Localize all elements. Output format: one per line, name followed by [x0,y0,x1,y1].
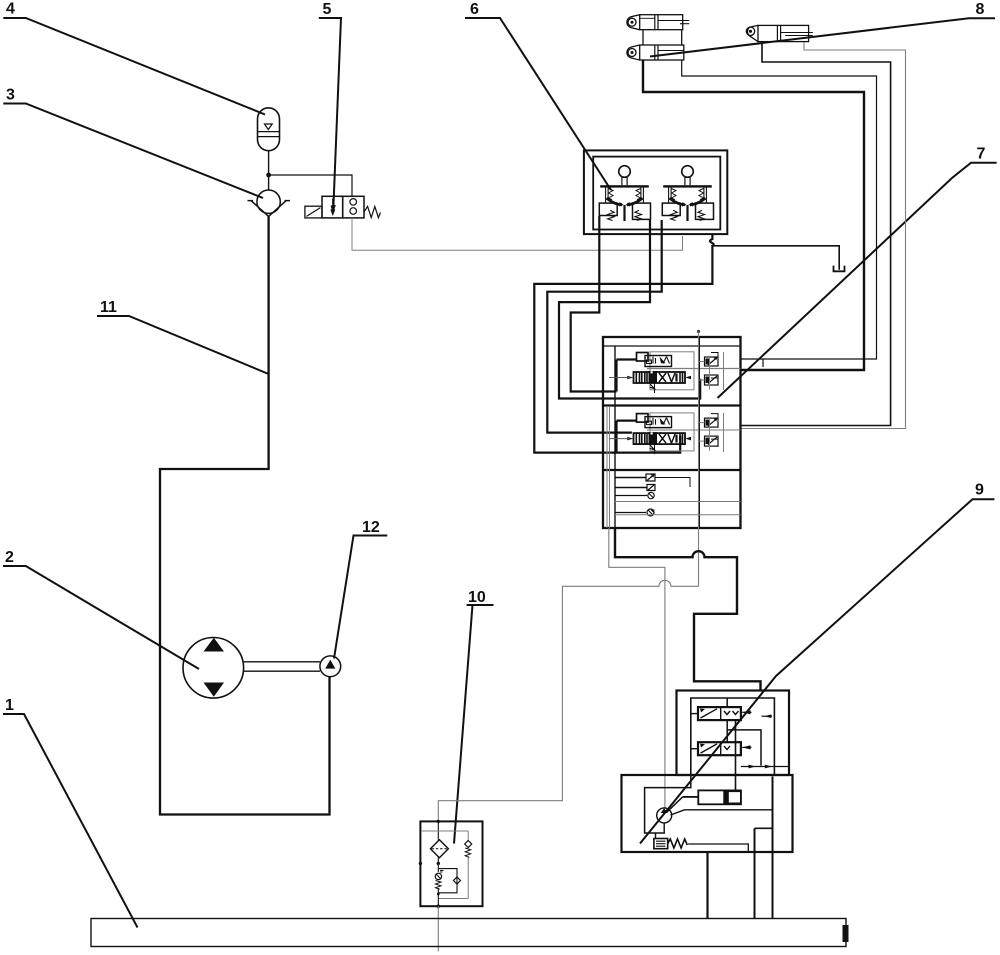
svg-text:9: 9 [975,482,984,499]
svg-text:1: 1 [5,697,14,714]
svg-text:11: 11 [100,299,117,316]
block 7 divider row1/row2 [603,404,741,406]
filter relief valve [435,869,460,893]
wire accumulator to junction [268,150,270,190]
block 9 internal wires upper [727,698,788,790]
filter drain wire [437,906,439,951]
row3 grey lines [615,502,741,515]
filter inner wires [419,820,469,908]
directional valve row 1 [609,352,718,393]
row3 orifice d [615,509,655,516]
block 9 relief valve [654,823,748,852]
tank symbol [834,266,845,272]
pilot unit left [599,166,650,221]
tank rail 1 [91,919,849,947]
valve block 7 outline [603,337,741,528]
svg-text:12: 12 [362,519,380,536]
block 9 valve B [691,742,752,755]
block 7 main internal divider [698,337,700,528]
node stub above gallery [697,330,700,337]
label 7 [718,146,997,399]
wire cylinder w2 [682,60,877,367]
tank return Z-route block7 to block9 [615,528,761,691]
block 7 inner left gallery [614,346,616,528]
row3 check symbol b [615,485,655,491]
svg-text:10: 10 [468,589,486,606]
svg-text:3: 3 [6,87,15,104]
filter element diamond [430,840,448,858]
filter 10 box [420,821,482,906]
main supply wire 11 pump to check valve [160,217,330,815]
pump 2 [183,638,244,699]
block 9 left leg [706,852,708,919]
directional valve row 2 [609,413,718,454]
wire cylinder w4 [741,42,906,429]
block 9 slave cylinder [667,790,741,812]
label 11 [97,299,269,374]
block 9 lower inner lines [645,775,691,833]
block 7 grey gallery lines [607,352,741,528]
block 7 divider row2/row3 [603,469,741,471]
label 3 [3,87,263,199]
svg-text:6: 6 [470,1,479,18]
label 2 [3,549,199,669]
block 9 upper box [677,691,790,776]
check valve 3 [248,190,291,216]
label 8 [650,1,995,57]
pilot line port C [547,220,661,433]
svg-text:5: 5 [323,1,332,18]
block 9 upper inner box [691,698,775,775]
cylinder frame links [643,30,682,45]
pilot unit right [662,166,713,221]
label 1 [3,697,138,928]
wire valve 5 drain to pilot box [352,218,683,250]
label 6 [465,1,611,190]
gallery wire through block to filter line [698,337,700,586]
wire cylinder w1 [643,60,864,370]
row3 check symbol a [615,474,690,487]
motor 12 [320,656,341,677]
svg-text:2: 2 [5,549,14,566]
block 9 right leg [755,777,773,919]
label 12 [334,519,387,659]
pilot line port B [559,220,700,399]
block 7 inner top line [603,345,741,347]
pump shaft [244,662,320,671]
block 9 valve A [691,707,772,720]
row3 orifice c [615,492,654,498]
filter suction wire [438,580,698,821]
node junction dot [266,173,271,178]
wire pilot box to tank [712,246,839,270]
block 9 pilot pump [657,808,773,823]
svg-text:4: 4 [6,1,15,18]
svg-text:8: 8 [976,1,985,18]
svg-text:7: 7 [977,146,986,163]
label 4 [3,1,265,115]
pilot line port D tank gallery [534,234,713,453]
accumulator 4 [258,108,280,151]
block 9 lower box [622,775,793,852]
cylinder 8 bottom-left [627,45,684,60]
pilot control box 6 outer [584,150,727,234]
solenoid valve 5 [305,196,381,218]
cylinder 8 top-left [627,15,689,30]
filter bypass check diamond [465,841,472,858]
label 10 [454,589,494,844]
cylinder 8 right [746,25,813,41]
wire cylinder w3 [741,42,891,426]
pilot control box 6 inner [593,157,720,230]
pilot line port A [571,216,617,392]
label 9 [640,482,994,844]
grey wire block7 to block9 motor [609,528,665,808]
label 5 [319,1,341,215]
wire junction to valve 5 [269,175,352,196]
